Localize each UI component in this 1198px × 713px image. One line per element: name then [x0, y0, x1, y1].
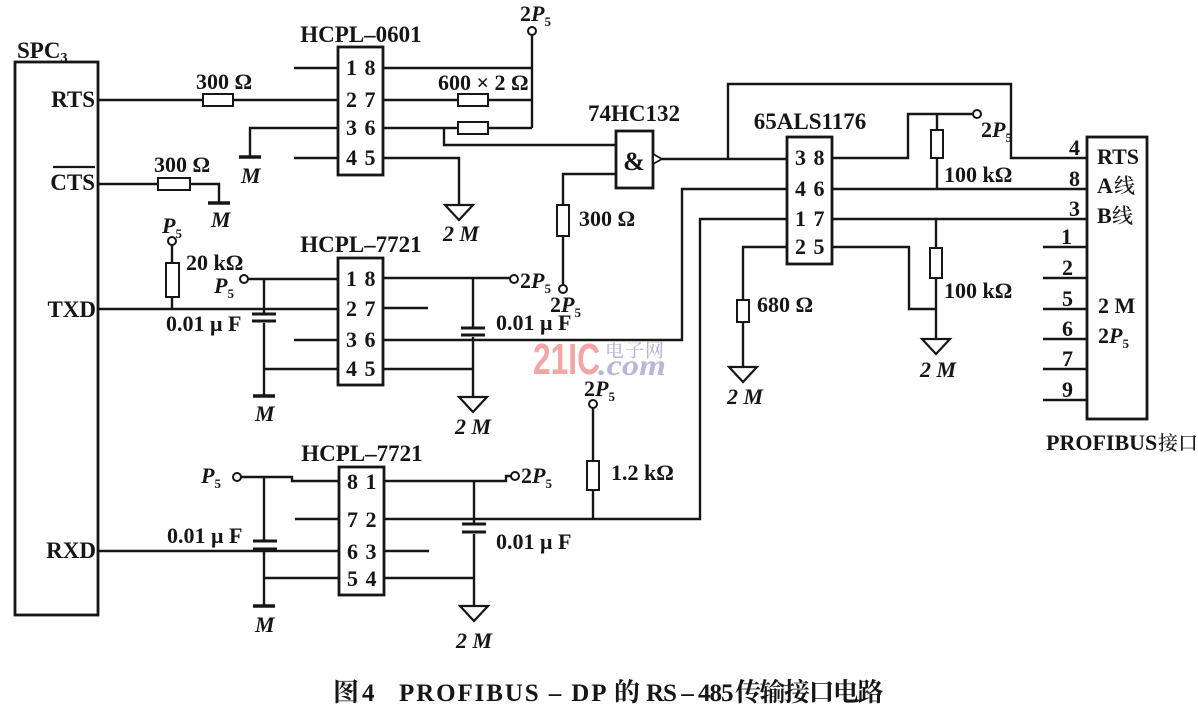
svg-text:2: 2 [1062, 255, 1073, 280]
wire 2P5 top rail down [531, 35, 533, 128]
resistor R3 20k [166, 263, 179, 297]
wire U3 pin1 from HCPL-7721b pin2 [384, 219, 787, 519]
svg-text:100 kΩ: 100 kΩ [944, 278, 1012, 303]
ground M under R2 [208, 201, 230, 205]
terminal 2P5 below R6 [559, 285, 567, 293]
svg-text:5: 5 [365, 356, 376, 381]
svg-text:8: 8 [365, 55, 376, 80]
svg-text:1: 1 [795, 206, 806, 231]
wire U4 pin8 to 2P5 [383, 277, 510, 279]
svg-text:HCPL–0601: HCPL–0601 [300, 22, 421, 47]
ground M under C3 [253, 604, 275, 608]
svg-text:1: 1 [1061, 224, 1072, 249]
svg-text:1: 1 [346, 55, 357, 80]
svg-text:5: 5 [814, 234, 825, 259]
svg-text:&: & [623, 147, 645, 176]
wire U1 pin3 to ground M [250, 128, 338, 157]
ground M under C1 [253, 394, 275, 398]
wire RXD from SPC3 to HCPL-7721b pin6 [98, 550, 339, 552]
terminal 2P5 above R10 [589, 400, 597, 408]
svg-text:65ALS1176: 65ALS1176 [754, 109, 866, 134]
wire U2 output to U3 pin3 [662, 158, 787, 160]
resistor R2 300ohm [158, 178, 190, 190]
svg-text:3: 3 [1069, 196, 1080, 221]
wire CTS from SPC3 to R2 [98, 183, 158, 185]
svg-text:RXD: RXD [46, 538, 96, 563]
wire 2P5 branch down to C2 [472, 278, 474, 327]
svg-text:7: 7 [365, 87, 376, 112]
wire U4 pin4 to ground branch [264, 368, 338, 370]
svg-text:8: 8 [365, 266, 376, 291]
svg-text:2: 2 [346, 87, 357, 112]
svg-text:M: M [254, 401, 276, 426]
wire U2 output up and over to connector pin4 [728, 84, 1087, 159]
svg-text:P5: P5 [161, 213, 182, 241]
wire U1 pin8 to 2P5 rail [383, 67, 532, 69]
IC U3 65ALS1176 box [787, 137, 832, 264]
resistor R8 100k [931, 130, 943, 158]
svg-text:8: 8 [814, 145, 825, 170]
svg-text:680 Ω: 680 Ω [757, 292, 813, 317]
wire P5 branch down to C3 [263, 477, 265, 540]
svg-text:4: 4 [795, 176, 806, 201]
svg-text:2: 2 [795, 234, 806, 259]
terminal 2P5 top [528, 27, 536, 35]
wire U1 pin7 to R4 [383, 99, 458, 101]
svg-text:2 M: 2 M [454, 414, 493, 439]
wire TXD from SPC3 to HCPL-7721a pin2 [98, 308, 338, 310]
svg-text:5: 5 [1062, 286, 1073, 311]
IC U1 HCPL-0601 box [338, 47, 383, 175]
svg-text:TXD: TXD [47, 297, 96, 322]
capacitor C1 0.01uF plates [252, 313, 276, 316]
wire U5 pin7 stub [295, 518, 339, 520]
svg-text:7: 7 [365, 296, 376, 321]
IC U5 HCPL-7721 box [339, 467, 384, 595]
svg-text:5: 5 [347, 566, 358, 591]
svg-text:3: 3 [346, 327, 357, 352]
wire B-line to R9 [935, 219, 937, 248]
svg-text:2P5: 2P5 [521, 463, 552, 491]
wire C1 to ground M [263, 323, 265, 396]
svg-text:300 Ω: 300 Ω [154, 152, 210, 177]
IC SPC3 box [15, 62, 98, 615]
svg-text:6: 6 [365, 327, 376, 352]
svg-text:2: 2 [346, 296, 357, 321]
wire R1 to HCPL-0601 pin2 [233, 99, 338, 101]
svg-text:21IC: 21IC [533, 335, 600, 384]
svg-text:6: 6 [347, 539, 358, 564]
svg-text:2 M: 2 M [1098, 293, 1136, 318]
svg-text:B: B [1097, 203, 1112, 228]
svg-text:7: 7 [347, 507, 358, 532]
IC U2 74HC132 box [616, 131, 653, 188]
connector pin7 stub [1043, 368, 1087, 370]
resistor R6 300ohm [557, 205, 569, 236]
ground M under U1 pin3 [239, 155, 261, 159]
svg-text:4: 4 [1069, 135, 1080, 160]
svg-text:6: 6 [1062, 316, 1073, 341]
svg-text:2 M: 2 M [726, 384, 765, 409]
wire R8 to A-line [936, 158, 938, 189]
capacitor C2 0.01uF plates [461, 327, 485, 330]
wire U3 pin4 from HCPL-7721a pin6 [383, 189, 787, 340]
svg-text:9: 9 [1062, 377, 1073, 402]
svg-text:4: 4 [362, 680, 375, 707]
terminal P5 at U5 pin8 [233, 473, 241, 481]
IC U4 HCPL-7721 box [338, 258, 383, 385]
watermark dianziwang [607, 341, 623, 358]
ground 2M under C2 [459, 397, 487, 412]
svg-text:5: 5 [365, 145, 376, 170]
terminal 2P5 at U5 pin1 [511, 472, 519, 480]
svg-text:0.01 μ F: 0.01 μ F [166, 311, 241, 336]
svg-text:CTS: CTS [50, 170, 95, 195]
wire C4 to ground 2M [473, 534, 475, 606]
wire U1 pin4 stub [294, 157, 338, 159]
connector pin5 stub [1043, 308, 1087, 310]
wire R9 to ground 2M [935, 278, 937, 339]
resistor R1 300ohm [203, 94, 233, 106]
svg-text:4: 4 [346, 356, 357, 381]
resistor R4 600ohm [458, 94, 488, 106]
wire U4 pin5 to C2 branch [383, 368, 473, 370]
ground 2M under R7 [729, 367, 757, 382]
wire 2P5 to R8 [936, 114, 938, 130]
svg-text:M: M [210, 207, 232, 232]
svg-text:74HC132: 74HC132 [588, 101, 680, 126]
svg-text:RS – 485: RS – 485 [646, 680, 733, 707]
wire U4 pin7 stub [383, 307, 428, 309]
wire R6 to 2P5 terminal [562, 236, 564, 285]
svg-text:8: 8 [1069, 166, 1080, 191]
svg-text:2P5: 2P5 [981, 117, 1012, 145]
wire R7 to ground 2M [742, 322, 744, 367]
svg-text:8: 8 [347, 469, 358, 494]
capacitor C3 0.01uF plates [253, 540, 277, 543]
svg-text:3: 3 [366, 539, 377, 564]
wire U3 pin5 to R9 bottom [832, 247, 936, 309]
wire R2 to ground M [190, 184, 219, 202]
ground 2M under U1 pin5 [445, 205, 473, 220]
svg-text:2 M: 2 M [919, 357, 958, 382]
resistor R9 100k [930, 248, 942, 278]
svg-text:M: M [240, 163, 262, 188]
wire 2P5 to R10 [592, 408, 594, 461]
wire C3 to ground M [263, 551, 265, 606]
svg-text:20 kΩ: 20 kΩ [186, 250, 243, 275]
wire U3 pin8 to 2P5 [832, 114, 973, 158]
svg-text:2 M: 2 M [455, 628, 494, 653]
wire U5 pin3 stub [384, 550, 429, 552]
svg-text:A: A [1097, 173, 1113, 198]
svg-text:2P5: 2P5 [520, 268, 551, 296]
svg-text:0.01 μ F: 0.01 μ F [496, 529, 571, 554]
svg-text:2 M: 2 M [442, 221, 481, 246]
wire R10 to RXD net [592, 490, 594, 519]
svg-text:6: 6 [814, 176, 825, 201]
wire gate lower input from R6 [563, 174, 616, 205]
wire P5 branch down to C1 [263, 279, 265, 313]
wire U1 pin1 stub [294, 67, 338, 69]
ground 2M under C4 [460, 606, 488, 621]
capacitor C4 0.01uF plates [462, 523, 486, 526]
svg-text:6: 6 [365, 115, 376, 140]
connector J1 PROFIBUS box [1087, 137, 1147, 419]
wire U3 pin7 to connector pin3 B-line [832, 218, 1087, 220]
terminal P5 above R3 [168, 237, 176, 245]
wire 2P5 branch down to C4 [473, 481, 475, 523]
wire U5 pin5 to ground branch [264, 577, 339, 579]
svg-text:100 kΩ: 100 kΩ [944, 162, 1012, 187]
svg-text:2P5: 2P5 [520, 1, 551, 29]
svg-text:300 Ω: 300 Ω [196, 69, 252, 94]
svg-text:P5: P5 [200, 463, 221, 491]
terminal P5 at U4 pin1 [240, 275, 248, 283]
wire U1 pin6 to R5 [383, 127, 458, 129]
wire U3 pin6 to connector pin8 A-line [832, 188, 1087, 190]
resistor R5 600ohm [458, 122, 488, 134]
svg-text:PROFIBUS – DP: PROFIBUS – DP [399, 680, 608, 707]
svg-text:7: 7 [814, 206, 825, 231]
svg-text:HCPL–7721: HCPL–7721 [301, 441, 422, 466]
wire C2 to ground 2M [472, 337, 474, 397]
wire R3 to TXD line [171, 297, 173, 309]
wire U1 pin6 jog to gate input [444, 128, 616, 145]
connector pin9 stub [1043, 399, 1087, 401]
wire U4 pin3 stub [294, 339, 338, 341]
wire U5 pin4 to C4 branch [384, 577, 474, 579]
svg-text:600 × 2 Ω: 600 × 2 Ω [438, 70, 529, 95]
wire U3 pin2 to R7 [743, 247, 787, 300]
svg-text:0.01 μ F: 0.01 μ F [167, 523, 242, 548]
svg-text:3: 3 [795, 145, 806, 170]
connector pin6 stub [1043, 338, 1087, 340]
svg-text:0.01 μ F: 0.01 μ F [496, 310, 571, 335]
connector pin2 stub [1043, 277, 1087, 279]
terminal 2P5 at U4 pin8 [510, 275, 518, 283]
svg-text:300 Ω: 300 Ω [579, 206, 635, 231]
svg-text:1: 1 [366, 469, 377, 494]
svg-text:4: 4 [346, 145, 357, 170]
wire R5 to 2P5 rail [488, 127, 532, 129]
resistor R10 1.2k [587, 461, 599, 490]
resistor R7 680ohm [737, 300, 749, 322]
wire U5 pin1 to 2P5 [384, 476, 511, 481]
svg-text:2: 2 [366, 507, 377, 532]
svg-text:SPC3: SPC3 [17, 38, 67, 66]
svg-text:7: 7 [1062, 346, 1073, 371]
svg-text:1.2 kΩ: 1.2 kΩ [611, 460, 674, 485]
connector pin1 stub [1043, 246, 1087, 248]
U2 output inverter bubble [653, 154, 662, 164]
svg-text:M: M [254, 612, 276, 637]
svg-text:P5: P5 [213, 273, 234, 301]
svg-text:RTS: RTS [51, 87, 95, 112]
wire U1 pin5 to ground 2M [383, 158, 459, 205]
svg-text:1: 1 [346, 266, 357, 291]
terminal 2P5 right [973, 110, 981, 118]
svg-text:3: 3 [346, 115, 357, 140]
ground 2M under R9 [922, 339, 950, 354]
svg-text:4: 4 [366, 566, 377, 591]
svg-text:RTS: RTS [1097, 144, 1139, 169]
svg-text:PROFIBUS: PROFIBUS [1046, 430, 1157, 455]
wire R4 to 2P5 rail [488, 99, 532, 101]
wire RTS from SPC3 to R1 [98, 99, 203, 101]
wire P5 to U4 pin1 [248, 278, 338, 280]
svg-text:HCPL–7721: HCPL–7721 [300, 232, 421, 257]
wire P5 to U5 pin8 [241, 477, 339, 481]
caption figure 4 title [336, 679, 358, 703]
wire P5 to R3 [171, 245, 173, 263]
